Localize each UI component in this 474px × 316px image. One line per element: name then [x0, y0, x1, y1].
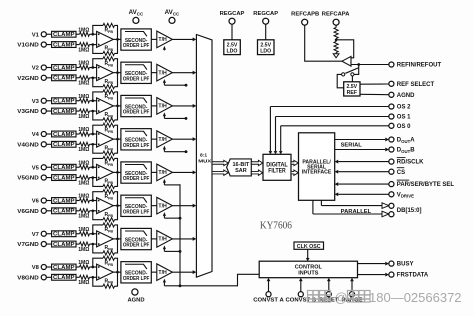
svg-text:ORDER LPF: ORDER LPF [123, 143, 150, 149]
svg-text:T/H: T/H [158, 37, 167, 43]
svg-text:V3GND: V3GND [17, 109, 39, 115]
svg-text:CLAMP: CLAMP [53, 142, 75, 148]
svg-text:KY7606: KY7606 [260, 219, 292, 231]
svg-text:1MΩ: 1MΩ [78, 214, 89, 220]
svg-text:ORDER LPF: ORDER LPF [123, 243, 150, 249]
svg-text:CLAMP: CLAMP [53, 42, 75, 48]
svg-text:ORDER LPF: ORDER LPF [123, 276, 150, 282]
svg-text:CLAMP: CLAMP [53, 275, 75, 281]
svg-text:V4: V4 [32, 132, 40, 138]
svg-text:V8GND: V8GND [17, 275, 39, 281]
svg-text:CLAMP: CLAMP [53, 209, 75, 215]
svg-text:1MΩ: 1MΩ [78, 160, 89, 166]
svg-text:V4GND: V4GND [17, 142, 39, 148]
svg-text:V1: V1 [32, 32, 40, 38]
svg-text:1MΩ: 1MΩ [78, 127, 89, 133]
svg-text:MUX: MUX [198, 159, 212, 165]
svg-text:1MΩ: 1MΩ [78, 81, 89, 87]
svg-text:SERIAL: SERIAL [341, 142, 363, 148]
svg-text:FILTER: FILTER [268, 168, 286, 175]
svg-text:1MΩ: 1MΩ [78, 280, 89, 286]
svg-text:CLAMP: CLAMP [53, 109, 75, 115]
svg-text:LDO: LDO [227, 48, 238, 54]
svg-text:REGCAP: REGCAP [220, 11, 245, 17]
svg-text:ORDER LPF: ORDER LPF [123, 110, 150, 116]
svg-text:CLAMP: CLAMP [53, 99, 75, 105]
svg-text:CS: CS [397, 170, 405, 176]
svg-text:CLAMP: CLAMP [53, 76, 75, 82]
svg-text:T/H: T/H [158, 170, 167, 176]
svg-text:REGCAP: REGCAP [253, 11, 278, 17]
svg-text:DOUTB: DOUTB [397, 148, 415, 154]
svg-text:OS 0: OS 0 [397, 124, 411, 130]
svg-text:REFCAPB: REFCAPB [291, 11, 319, 17]
svg-text:REF: REF [347, 90, 357, 96]
svg-text:INPUTS: INPUTS [298, 271, 319, 277]
svg-text:CLAMP: CLAMP [53, 65, 75, 71]
svg-text:AGND: AGND [397, 93, 415, 99]
svg-text:DB[15:0]: DB[15:0] [397, 208, 422, 214]
svg-text:T/H: T/H [158, 137, 167, 143]
svg-text:1MΩ: 1MΩ [78, 260, 89, 266]
svg-text:T/H: T/H [158, 237, 167, 243]
svg-text:CLAMP: CLAMP [53, 242, 75, 248]
svg-text:CLAMP: CLAMP [53, 232, 75, 238]
svg-text:CLAMP: CLAMP [53, 132, 75, 138]
svg-text:CLAMP: CLAMP [53, 32, 75, 38]
svg-text:1MΩ: 1MΩ [78, 47, 89, 53]
svg-text:CLAMP: CLAMP [53, 175, 75, 181]
svg-text:V5GND: V5GND [17, 176, 39, 182]
svg-text:INTERFACE: INTERFACE [302, 170, 332, 176]
svg-text:ORDER LPF: ORDER LPF [123, 209, 150, 215]
svg-text:OS 1: OS 1 [397, 115, 411, 121]
svg-text:REFIN/REFOUT: REFIN/REFOUT [397, 63, 442, 69]
svg-text:LDO: LDO [260, 48, 271, 54]
svg-text:PARALLEL: PARALLEL [341, 209, 372, 215]
svg-text:V2GND: V2GND [17, 76, 39, 82]
svg-text:OS 2: OS 2 [397, 105, 411, 111]
svg-text:T/H: T/H [158, 104, 167, 110]
svg-text:T/H: T/H [158, 270, 167, 276]
svg-text:1MΩ: 1MΩ [78, 94, 89, 100]
svg-text:V7: V7 [32, 232, 39, 238]
svg-text:1MΩ: 1MΩ [78, 114, 89, 120]
svg-text:ORDER LPF: ORDER LPF [123, 43, 150, 49]
svg-text:AGND: AGND [127, 297, 144, 303]
svg-text:V1GND: V1GND [17, 43, 39, 49]
svg-text:CLAMP: CLAMP [53, 265, 75, 271]
svg-text:1MΩ: 1MΩ [78, 61, 89, 67]
svg-text:SAR: SAR [235, 168, 247, 174]
svg-text:1MΩ: 1MΩ [78, 194, 89, 200]
svg-text:V7GND: V7GND [17, 242, 39, 248]
svg-text:V2: V2 [32, 66, 39, 72]
svg-text:1MΩ: 1MΩ [78, 27, 89, 33]
svg-text:CLAMP: CLAMP [53, 198, 75, 204]
svg-text:T/H: T/H [158, 203, 167, 209]
svg-text:1MΩ: 1MΩ [78, 180, 89, 186]
svg-text:T/H: T/H [158, 70, 167, 76]
svg-text:ORDER LPF: ORDER LPF [123, 176, 150, 182]
svg-text:1MΩ: 1MΩ [78, 147, 89, 153]
svg-text:@: @ [334, 290, 347, 305]
svg-text:V3: V3 [32, 99, 40, 105]
svg-text:V8: V8 [32, 265, 40, 271]
svg-text:CONVST A: CONVST A [253, 298, 284, 304]
svg-text:REFCAPA: REFCAPA [322, 11, 350, 17]
svg-text:V6: V6 [32, 199, 40, 205]
svg-text:V6GND: V6GND [17, 209, 39, 215]
svg-text:1MΩ: 1MΩ [78, 247, 89, 253]
svg-text:CLAMP: CLAMP [53, 165, 75, 171]
svg-text:FRSTDATA: FRSTDATA [397, 273, 429, 279]
svg-text:8:1: 8:1 [200, 152, 207, 158]
svg-text:DOUTA: DOUTA [397, 138, 415, 144]
svg-text:CLK OSC: CLK OSC [297, 244, 321, 250]
svg-text:BUSY: BUSY [397, 262, 414, 268]
svg-text:1MΩ: 1MΩ [78, 227, 89, 233]
svg-text:VDRIVE: VDRIVE [397, 192, 414, 198]
svg-text:180—02566372: 180—02566372 [369, 290, 462, 305]
svg-text:RD/SCLK: RD/SCLK [397, 160, 424, 166]
svg-text:REF SELECT: REF SELECT [397, 82, 435, 88]
svg-text:PAR/SER/BYTE SEL: PAR/SER/BYTE SEL [397, 182, 455, 188]
svg-text:V5: V5 [32, 165, 40, 171]
svg-text:ORDER LPF: ORDER LPF [123, 76, 150, 82]
